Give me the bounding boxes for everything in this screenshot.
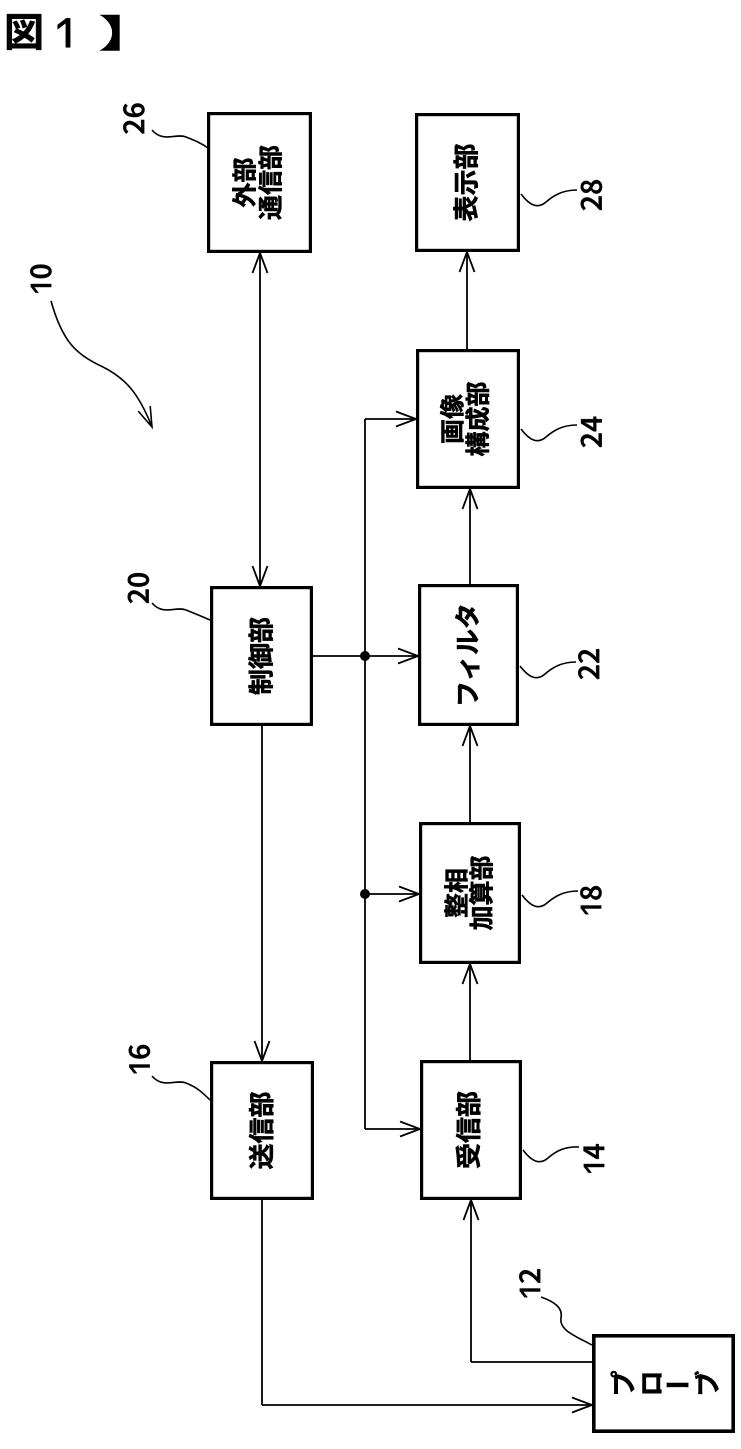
- label 24: [581, 417, 602, 448]
- wire from box20 down to box16: [261, 726, 263, 1061]
- box 28 hyojibu (display unit): [417, 115, 519, 251]
- junction dot at control line and filter wire: [360, 651, 370, 661]
- junction dot at phasing branch: [360, 889, 370, 899]
- label 18: [580, 886, 601, 914]
- box 20 seigyobu (control unit): [212, 588, 312, 725]
- wire from box20 right to filter box22: [313, 655, 418, 657]
- wire box16 to probe box12: [261, 1200, 263, 1405]
- signal wire box18 to box22: [469, 726, 471, 822]
- leader line 22: [520, 662, 576, 678]
- vertical control distribution line: [364, 419, 366, 1129]
- branch to box14 reception: [365, 1128, 420, 1130]
- box 12 probe: [594, 1336, 733, 1431]
- branch to box18 phasing addition: [365, 893, 419, 895]
- label 16: [129, 1045, 150, 1073]
- leader line 18: [522, 891, 578, 907]
- branch to box24 image construction: [365, 418, 416, 420]
- leader arrow for 10: [51, 301, 152, 427]
- leader line 24: [521, 425, 577, 441]
- leader line 14: [523, 1147, 579, 1162]
- label 28: [581, 180, 602, 210]
- label 12: [519, 1269, 540, 1297]
- signal wire box22 to box24: [469, 489, 471, 584]
- label 20: [128, 573, 149, 603]
- leader line 16: [152, 1076, 210, 1100]
- label 22: [578, 649, 599, 679]
- box 16 soshinbu (transmission unit): [212, 1063, 313, 1199]
- leader line 26: [152, 130, 208, 148]
- leader line 20: [152, 603, 210, 620]
- label 26: [123, 103, 144, 133]
- box 18 seiso kasanbu (phasing addition unit): [421, 824, 520, 963]
- label 14: [584, 1144, 605, 1173]
- leader line 12: [541, 1297, 592, 1345]
- leader line 28: [521, 190, 577, 206]
- label 10 overall system: [30, 265, 51, 293]
- box 14 jushinbu (reception unit): [422, 1062, 521, 1199]
- signal wire probe box12 to box14: [470, 1200, 472, 1362]
- signal wire box14 to box18: [469, 964, 471, 1060]
- signal wire box24 to box28 display: [466, 252, 468, 349]
- box 26 gaibu tsushinbu (external communication unit): [209, 114, 311, 252]
- box 24 gazo koseibu (image construction unit): [418, 351, 519, 488]
- box 22 filter: [420, 586, 518, 725]
- figure header 図1】: [7, 14, 41, 50]
- wire double arrow between box26 and box20: [259, 253, 261, 586]
